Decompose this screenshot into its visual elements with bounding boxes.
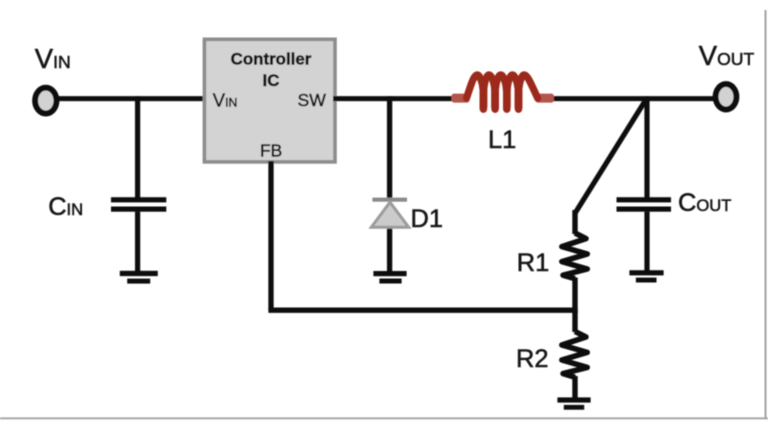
svg-text:FB: FB [260,140,282,160]
wire FB horizontal [268,308,577,313]
ground D1 [373,271,406,284]
wire COUT branch [644,96,649,197]
controller IC U1 box [204,39,335,162]
svg-text:D1: D1 [411,205,443,233]
terminal VOUT [716,84,737,109]
svg-text:COUT: COUT [678,189,731,217]
svg-text:R2: R2 [516,345,548,373]
resistor R2 [562,331,588,377]
wire R2 top [572,310,577,332]
frame bottom edge [0,417,768,419]
wire COUT to ground [644,212,649,271]
ground COUT [629,270,663,282]
wire CIN to ground [135,212,140,272]
svg-text:SW: SW [298,90,327,110]
svg-text:L1: L1 [488,126,516,154]
wire D1 to ground [387,224,392,271]
wire CIN branch [135,96,140,197]
svg-text:CIN: CIN [48,193,83,221]
svg-text:Controller: Controller [231,49,312,68]
wire diagonal VOUT node to R1 [575,100,646,213]
inductor L1 [452,75,554,109]
capacitor CIN [111,197,166,212]
wire SW to L1 [333,96,454,101]
svg-text:VOUT: VOUT [699,40,755,71]
wire R1 to FB junction [572,278,577,314]
wire VIN to IC [58,96,206,101]
wire R2 to ground [572,376,577,398]
resistor R1 [562,233,588,279]
capacitor COUT [617,197,672,212]
svg-text:R1: R1 [517,249,549,277]
diode D1 [371,198,408,228]
frame right edge [765,10,767,419]
wire FB vertical [268,161,273,310]
svg-text:VIN: VIN [35,43,71,74]
ground CIN [120,271,158,284]
wire D1 branch [387,96,392,200]
svg-text:IC: IC [263,71,280,90]
wire L1 to VOUT [549,96,715,101]
wire R1 top [572,210,577,234]
terminal VIN [35,88,56,114]
ground R2 [557,397,590,409]
